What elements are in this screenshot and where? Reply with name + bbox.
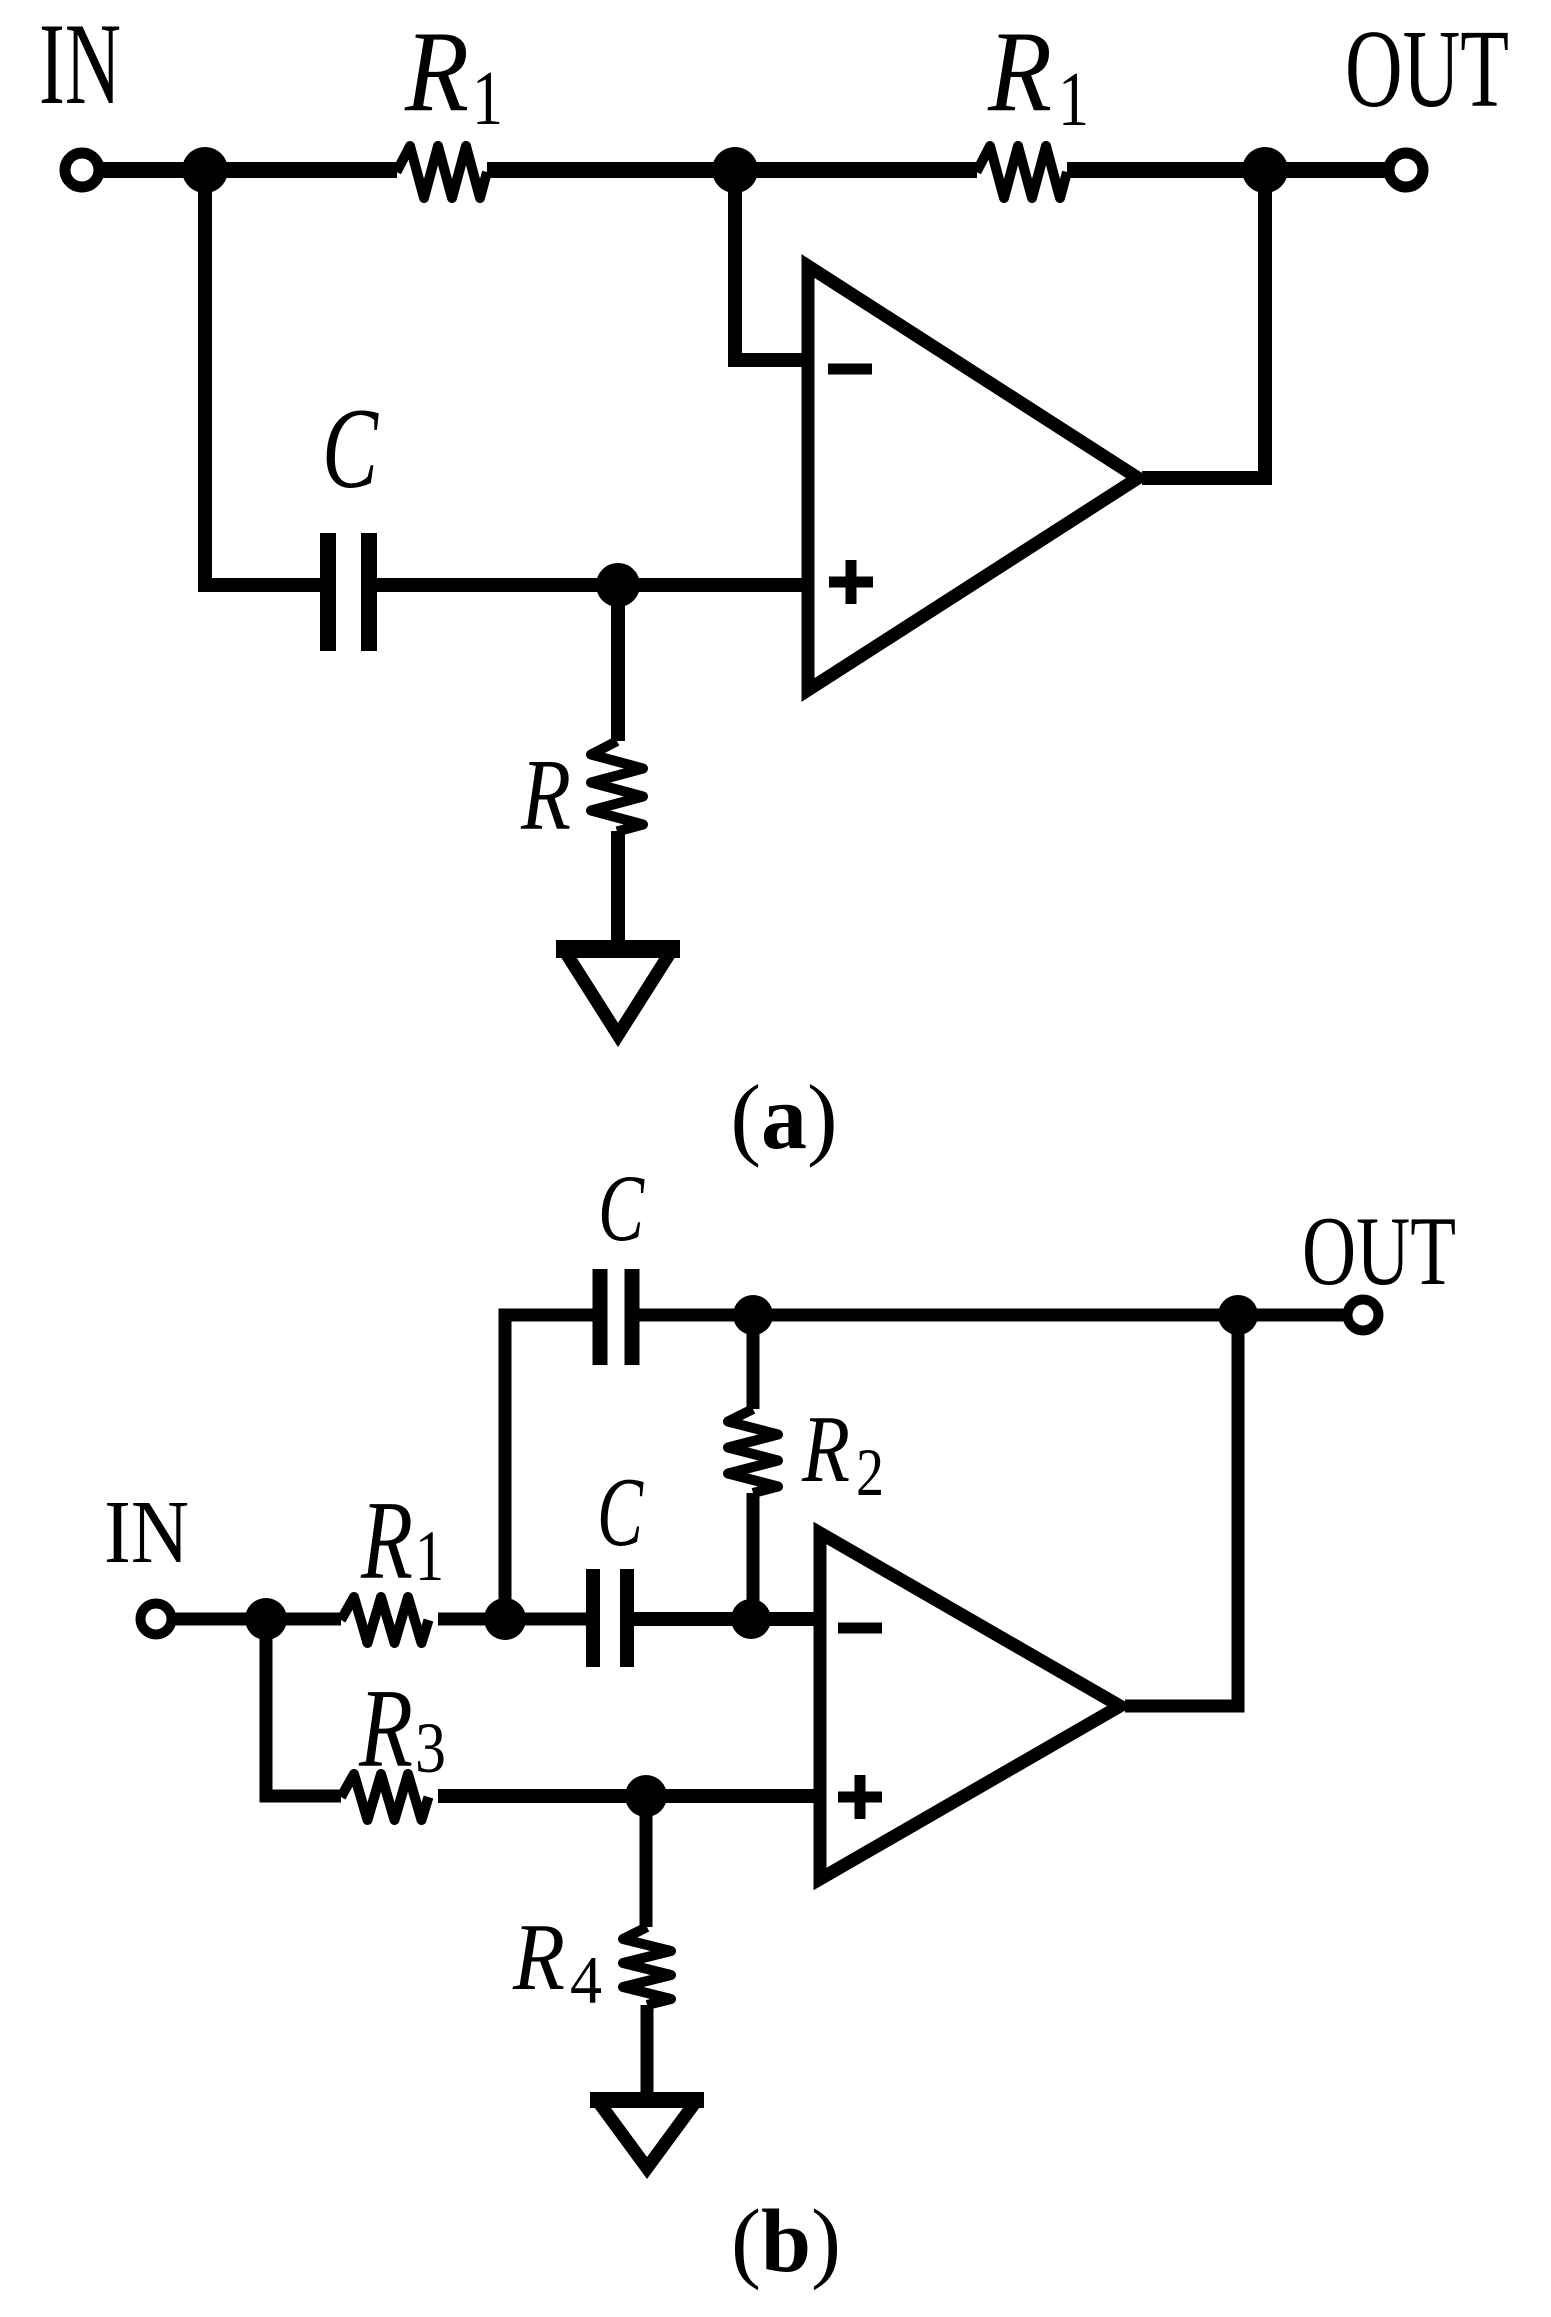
svg-text:1: 1 — [1058, 56, 1089, 142]
svg-text:IN: IN — [39, 0, 121, 129]
svg-text:R: R — [404, 8, 469, 136]
svg-text:2: 2 — [856, 1434, 884, 1510]
svg-text:R: R — [520, 739, 571, 852]
svg-text:R: R — [360, 1479, 413, 1603]
svg-text:(a): (a) — [730, 1066, 837, 1168]
svg-text:3: 3 — [415, 1708, 446, 1788]
svg-text:OUT: OUT — [1302, 1197, 1456, 1306]
svg-text:C: C — [322, 385, 379, 512]
svg-text:R: R — [358, 1667, 413, 1791]
svg-text:OUT: OUT — [1345, 8, 1509, 131]
svg-text:R: R — [801, 1396, 850, 1502]
svg-text:(b): (b) — [731, 2192, 841, 2291]
svg-text:R: R — [987, 8, 1052, 136]
svg-text:R: R — [512, 1904, 565, 2010]
svg-text:IN: IN — [104, 1483, 189, 1582]
svg-text:C: C — [597, 1458, 644, 1567]
svg-text:1: 1 — [472, 55, 503, 141]
svg-text:C: C — [598, 1155, 645, 1261]
svg-text:4: 4 — [570, 1942, 602, 2018]
svg-text:1: 1 — [415, 1516, 444, 1596]
